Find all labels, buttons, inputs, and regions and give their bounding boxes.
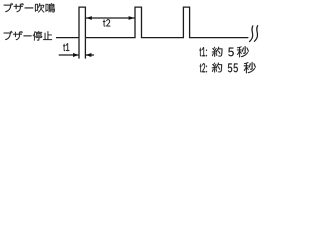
legend line2 "t2:" xyxy=(200,63,207,72)
legend line2 "55" xyxy=(228,64,238,73)
legend line1 "t1:" xyxy=(200,47,207,56)
t1 dimension right segment with left-pointing arrowhead xyxy=(86,54,94,56)
waveform: buzzer on/off pulse train xyxy=(56,7,248,37)
break symbol (double S-curve) at right end of waveform xyxy=(249,25,253,42)
legend line2 kanji "approx" xyxy=(212,63,222,73)
legend line1 kanji "seconds" xyxy=(237,46,249,57)
label t2 under dimension line xyxy=(103,19,110,26)
t2 dimension line (off period, between pulse1 fall and pulse2 rise) xyxy=(86,17,135,19)
label "buzzer stop" (buzzer teishi) xyxy=(4,31,52,41)
legend line1 "5" xyxy=(228,48,233,57)
t1 extension line right (pulse1 falling edge extended) xyxy=(84,38,86,58)
t2 left arrowhead xyxy=(86,16,92,20)
legend line1 kanji "approx" xyxy=(212,47,223,57)
buzzer timing diagram xyxy=(0,0,301,81)
t1 dimension left segment with right-pointing arrowhead xyxy=(59,54,79,56)
legend line2 kanji "seconds" xyxy=(244,62,256,73)
t2 right arrowhead xyxy=(129,16,135,20)
label t1 above dimension line xyxy=(63,43,69,51)
t1 extension line left (pulse1 rising edge extended below baseline) xyxy=(78,38,80,58)
label "buzzer sounding" (buzzer suimei) xyxy=(4,3,55,13)
